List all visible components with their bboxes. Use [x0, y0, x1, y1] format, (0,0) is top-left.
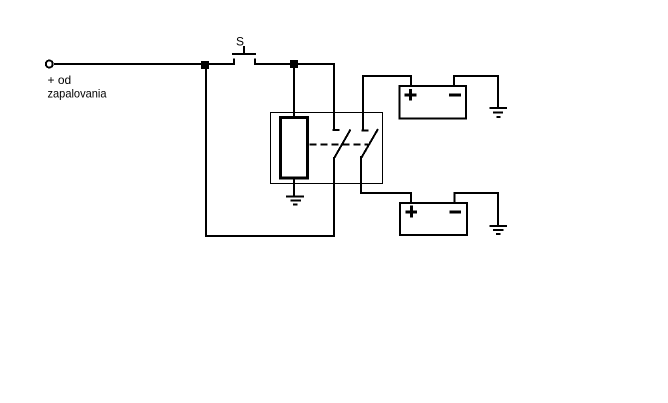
- relay contact 2 fixed terminal wire: [362, 76, 364, 130]
- wire: contact 2 top to battery 1 plus: [362, 76, 411, 86]
- wire: terminal to switch left: [54, 63, 234, 65]
- junction dot B: [291, 61, 297, 67]
- relay contact 1 fixed bar: [333, 129, 340, 131]
- battery B2 plus sign: [405, 206, 417, 218]
- svg-text:+ od: + od: [48, 73, 72, 87]
- wire: contact 2 blade down to battery 2 plus: [361, 156, 411, 203]
- ground (battery B1): [490, 108, 508, 117]
- wire: battery B2 minus to ground: [454, 193, 498, 225]
- ground (battery B2): [490, 226, 508, 234]
- wire: drop to relay contact 1 fixed terminal: [333, 63, 335, 130]
- wire: self-hold loop (junction A down, across, up to contact1 blade): [206, 64, 334, 236]
- wire: coil bottom to ground: [293, 178, 295, 196]
- relay contact 1 blade: [335, 130, 351, 158]
- junction dot A: [202, 62, 208, 68]
- relay coil: [281, 118, 308, 179]
- relay box outline: [271, 113, 383, 184]
- switch S right contact stub: [254, 59, 256, 66]
- battery B2 body: [400, 203, 467, 235]
- relay contact 2 blade: [362, 129, 379, 158]
- switch S actuator bar: [232, 53, 256, 55]
- relay actuator dashed link: [310, 144, 369, 146]
- wire: battery B1 minus to ground: [454, 76, 498, 107]
- battery B1 minus sign: [449, 94, 461, 97]
- svg-text:zapalovania: zapalovania: [48, 87, 107, 101]
- svg-text:S: S: [236, 35, 244, 49]
- wire: junction B down to relay coil top: [293, 64, 295, 116]
- battery B2 minus sign: [449, 211, 461, 214]
- wire: switch right to contact1 top corner: [255, 63, 335, 65]
- relay contact 2 fixed bar: [362, 130, 369, 132]
- switch S actuator stem: [243, 46, 245, 53]
- terminal circle (+ od zapalovania input): [46, 61, 53, 68]
- battery B1 body: [400, 86, 467, 119]
- battery B1 plus sign: [405, 89, 417, 101]
- switch S left contact stub: [233, 59, 235, 66]
- ground (below coil): [286, 197, 304, 205]
